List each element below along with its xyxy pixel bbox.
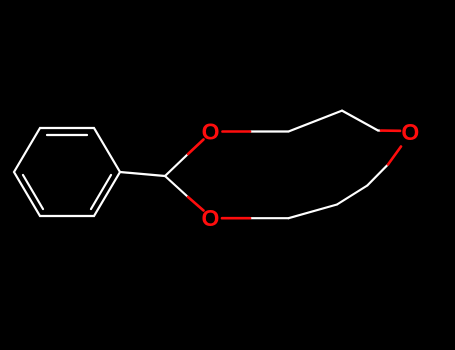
svg-text:O: O (202, 119, 220, 145)
svg-text:O: O (202, 205, 220, 231)
svg-text:O: O (401, 119, 419, 145)
